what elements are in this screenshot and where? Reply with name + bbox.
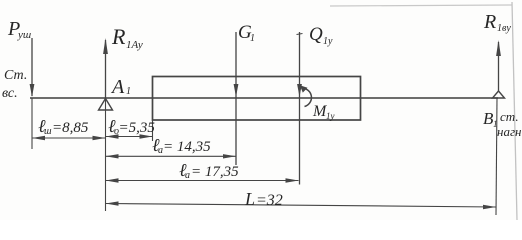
force P_ush arrow (down) (30, 38, 35, 97)
svg-text:ш: ш (44, 126, 52, 137)
force Q1y arrow (down) (297, 32, 303, 185)
svg-text:= 14,35: = 14,35 (163, 139, 211, 155)
dimension L = 32 (106, 201, 497, 209)
beam axis line (30, 97, 498, 99)
dimension l_a = 14.35 (106, 154, 237, 158)
reaction R_1By label (483, 11, 511, 34)
force Q1y label (309, 24, 333, 47)
force P_ush label (7, 18, 31, 41)
dimension l_o = 5,35 (106, 134, 153, 138)
svg-text:=32: =32 (256, 192, 283, 209)
svg-text:=8,85: =8,85 (52, 120, 89, 136)
svg-text:Ст.: Ст. (4, 68, 27, 83)
beam body rectangle (153, 77, 361, 121)
support A triangle (99, 99, 113, 111)
svg-text:1: 1 (126, 86, 131, 97)
svg-text:1ву: 1ву (497, 23, 511, 34)
svg-text:R: R (483, 11, 496, 33)
force G1 arrow (down) (234, 32, 239, 165)
svg-text:1у: 1у (323, 36, 333, 47)
svg-text:=5,35: =5,35 (119, 120, 156, 136)
dimension l_sh = 8,85 (32, 136, 106, 140)
node A1 label (110, 76, 131, 98)
reaction R_1Ay arrow (up) (103, 38, 108, 98)
svg-text:1Ау: 1Ау (126, 39, 143, 51)
moment M1y label (312, 103, 335, 121)
reaction R_1By arrow (up) (496, 40, 501, 91)
wire: A vertical extension below beam (105, 98, 107, 211)
svg-text:= 17,35: = 17,35 (191, 164, 239, 180)
svg-text:L: L (244, 189, 255, 209)
svg-text:а: а (185, 170, 190, 181)
svg-text:уш: уш (17, 29, 31, 41)
page border faint right (512, 2, 517, 220)
moment M1y arc arrow (300, 85, 312, 106)
svg-text:1: 1 (250, 33, 255, 44)
force G1 label (238, 22, 255, 44)
node B1 label (483, 109, 498, 129)
svg-text:нагн.: нагн. (497, 124, 522, 139)
svg-text:Q: Q (309, 24, 323, 45)
svg-text:ст.: ст. (500, 109, 519, 124)
svg-text:R: R (111, 24, 126, 49)
wire: P line extension below beam (31, 98, 33, 149)
svg-text:А: А (110, 76, 125, 98)
wire: B vertical extension below beam (496, 98, 497, 215)
dimension l_a = 17,35 (106, 178, 299, 182)
svg-text:вс.: вс. (2, 86, 18, 101)
reaction R_1Ay label (111, 24, 143, 51)
svg-text:1у: 1у (326, 111, 335, 121)
wire: rect left edge extension (152, 120, 154, 141)
support B triangle (493, 91, 505, 98)
page border faint top (330, 5, 512, 6)
